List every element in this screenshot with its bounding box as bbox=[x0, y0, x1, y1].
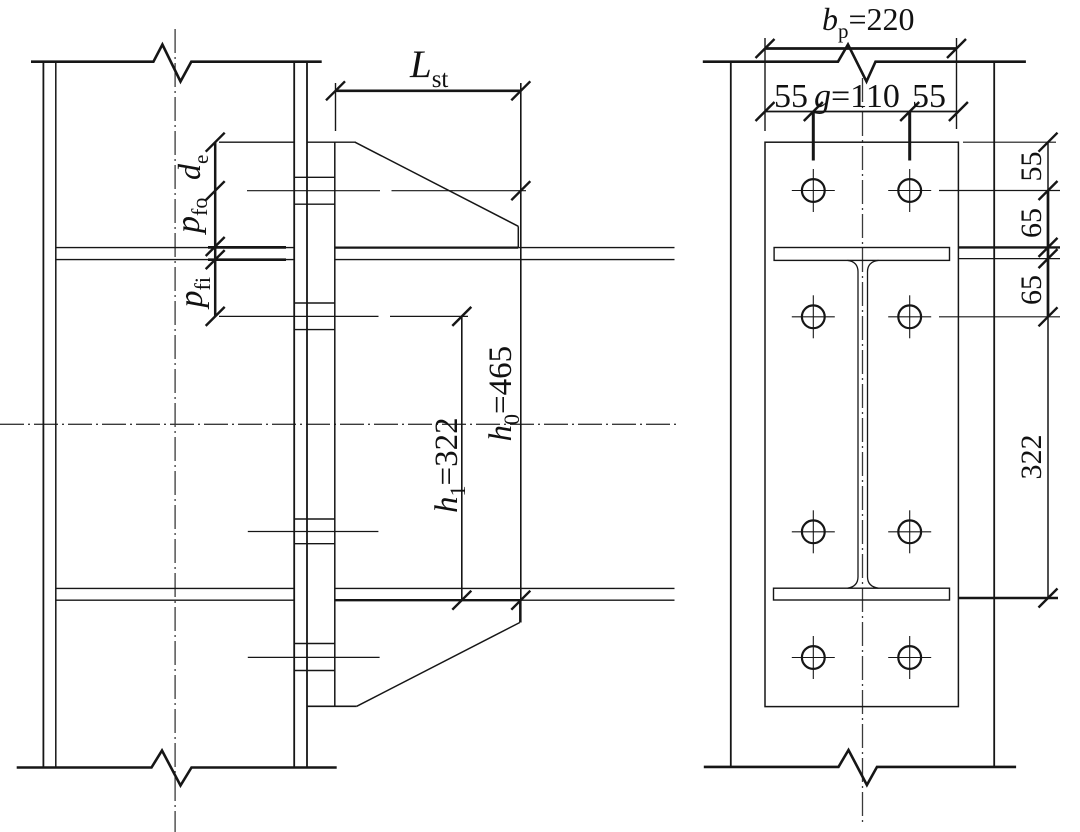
chain tick at plate top bbox=[1039, 133, 1058, 152]
column bottom edge with break symbol bbox=[17, 751, 337, 786]
bolt B4 crosshair bbox=[888, 657, 931, 659]
chain tick at flange bottom bbox=[1039, 249, 1058, 268]
bolt hole A2 circle bbox=[802, 305, 825, 328]
right view column right edge bbox=[993, 62, 995, 767]
bolt hole B1 circle bbox=[898, 179, 921, 202]
bolt row 2 centerline bbox=[219, 315, 379, 317]
end plate outline (face view) bbox=[765, 142, 958, 706]
column continuity stiffener at beam bottom flange, upper line bbox=[56, 587, 294, 589]
right view column centerline bbox=[862, 78, 864, 825]
bolt hole B2 circle bbox=[898, 305, 921, 328]
right extension / h0 dimension line bbox=[520, 83, 522, 623]
bolt row 1 lower line bbox=[294, 203, 335, 205]
chain tick at bottom flange bbox=[1039, 589, 1058, 608]
chain tick at flange top bbox=[1039, 238, 1058, 257]
chain extension at flange top (bold) bbox=[958, 246, 1060, 248]
bolt hole A3 circle bbox=[802, 520, 825, 543]
beam top flange outline (section) bbox=[774, 248, 949, 261]
column left flange outer line bbox=[42, 62, 44, 768]
column continuity stiffener at beam bottom flange, lower line bbox=[56, 599, 294, 601]
bolt hole B4 circle bbox=[898, 646, 921, 669]
beam bottom flange bottom line (bold over haunch) bbox=[335, 599, 520, 601]
beam web right line with fillets bbox=[868, 260, 879, 588]
bolt B3 crosshair bbox=[888, 531, 931, 533]
beam bottom flange bottom line bbox=[520, 599, 675, 601]
bolt row 3 upper line bbox=[294, 518, 335, 520]
svg-text:g=110: g=110 bbox=[814, 78, 900, 115]
bolt row 4 lower line bbox=[294, 670, 335, 672]
bold extension at beam flange bottom level bbox=[208, 258, 286, 261]
chain tick at row 1 bbox=[1039, 181, 1058, 200]
chain extension at plate top bbox=[963, 141, 1056, 143]
end plate top line bbox=[307, 141, 356, 143]
h1 bottom tick bbox=[452, 591, 471, 610]
svg-text:65: 65 bbox=[1015, 208, 1048, 238]
tick at beam flange top bbox=[206, 237, 225, 256]
tick at bolt row 2 bbox=[206, 307, 225, 326]
right view column top edge with break bbox=[703, 45, 1026, 82]
bolt line B stub bbox=[908, 112, 911, 161]
L_st right tick bbox=[511, 81, 530, 100]
svg-text:55: 55 bbox=[1015, 152, 1048, 182]
beam top flange top line bbox=[518, 247, 674, 249]
bolt hole B3 circle bbox=[898, 520, 921, 543]
bolt B2 crosshair (extends to dimension line) bbox=[888, 316, 931, 318]
right dimension chain line bbox=[1047, 142, 1049, 598]
L_st left tick bbox=[326, 81, 345, 100]
column centerline (left view) bbox=[174, 29, 176, 832]
right view column bottom edge with break bbox=[704, 750, 1016, 785]
bottom haunch stiffener diagonal bbox=[357, 623, 520, 707]
bolt row 4 centerline bbox=[248, 656, 380, 658]
chain extension at flange bottom bbox=[958, 258, 1060, 260]
right view column left edge bbox=[730, 62, 732, 767]
column continuity stiffener at beam top flange, lower line bbox=[56, 259, 294, 261]
b_p right tick bbox=[947, 39, 966, 58]
column right flange inner line bbox=[293, 62, 295, 768]
bolt hole A1 circle bbox=[802, 179, 825, 202]
svg-text:55: 55 bbox=[912, 78, 946, 115]
bolt A1 crosshair bbox=[792, 190, 835, 192]
column continuity stiffener at beam top flange, upper line bbox=[56, 247, 294, 249]
beam top flange top line (bold over haunch) bbox=[335, 247, 519, 249]
bolt A2 crosshair bbox=[792, 316, 835, 318]
beam top flange bottom line bbox=[335, 259, 675, 261]
bolt row 1 upper line bbox=[294, 176, 335, 178]
beam centerline (left view) bbox=[0, 423, 678, 425]
left dimension line d_e p_fo p_fi bbox=[214, 142, 217, 316]
bolt row 1 centerline bbox=[247, 190, 380, 192]
tick at plate top bbox=[206, 133, 225, 152]
b_p right extension line bbox=[956, 38, 958, 129]
svg-text:65: 65 bbox=[1015, 275, 1048, 305]
gauge tick at bolt line B bbox=[900, 102, 919, 121]
bolt row 2 lower line bbox=[294, 329, 335, 331]
svg-text:h0=465: h0=465 bbox=[483, 346, 524, 442]
beam bottom flange outline (section) bbox=[774, 588, 950, 600]
column top edge with break symbol bbox=[31, 45, 322, 82]
bolt line A stub bbox=[812, 112, 815, 161]
h0 bottom tick bbox=[511, 591, 530, 610]
svg-text:322: 322 bbox=[1015, 435, 1048, 480]
tick at beam flange bottom bbox=[206, 250, 225, 269]
bolt A4 crosshair bbox=[792, 657, 835, 659]
gauge dimension line 55 g=110 55 bbox=[765, 111, 958, 113]
tick at bolt row 1 bbox=[206, 181, 225, 200]
b_p left extension line bbox=[764, 38, 766, 131]
bolt row 2 upper line bbox=[294, 302, 335, 304]
b_p dimension line bbox=[765, 47, 957, 50]
bolt hole A4 circle bbox=[802, 646, 825, 669]
svg-text:bp=220: bp=220 bbox=[822, 1, 915, 43]
svg-text:55: 55 bbox=[774, 78, 808, 115]
gauge tick at bolt line A bbox=[804, 102, 823, 121]
svg-text:h1=322: h1=322 bbox=[429, 417, 470, 513]
bolt A3 crosshair bbox=[792, 531, 835, 533]
chain extension at bottom flange (bold) bbox=[958, 597, 1058, 599]
column right flange outer line / plate contact bbox=[306, 62, 308, 768]
beam web left line with fillets bbox=[848, 260, 859, 588]
h1 dimension line bbox=[461, 316, 463, 601]
top haunch stiffener diagonal bbox=[355, 142, 518, 226]
h1 top tick bbox=[452, 307, 471, 326]
right chain bold segment (65+65) bbox=[1047, 191, 1050, 317]
top haunch stiffener end vertical bbox=[517, 226, 519, 247]
end plate right edge bbox=[334, 142, 336, 706]
chain tick at row 2 bbox=[1039, 307, 1058, 326]
bold extension at beam flange top level bbox=[208, 246, 286, 249]
column left flange inner line bbox=[55, 62, 57, 768]
end plate bottom line bbox=[307, 705, 357, 707]
bottom haunch stiffener end vertical bbox=[519, 600, 521, 622]
bolt B1 crosshair (extends to dimension line) bbox=[888, 190, 931, 192]
gauge tick at plate left bbox=[756, 102, 775, 121]
bolt row 3 centerline bbox=[248, 531, 379, 533]
beam bottom flange top line bbox=[335, 587, 675, 589]
bolt row 3 lower line bbox=[294, 543, 335, 545]
L_st left extension line bbox=[335, 83, 337, 131]
bolt row 4 upper line bbox=[294, 643, 335, 645]
L_st dimension line bbox=[336, 90, 521, 93]
gauge tick at plate right bbox=[949, 102, 968, 121]
d_e extension line at plate top bbox=[219, 141, 294, 143]
b_p left tick bbox=[756, 39, 775, 58]
h0 top tick bbox=[511, 181, 530, 200]
